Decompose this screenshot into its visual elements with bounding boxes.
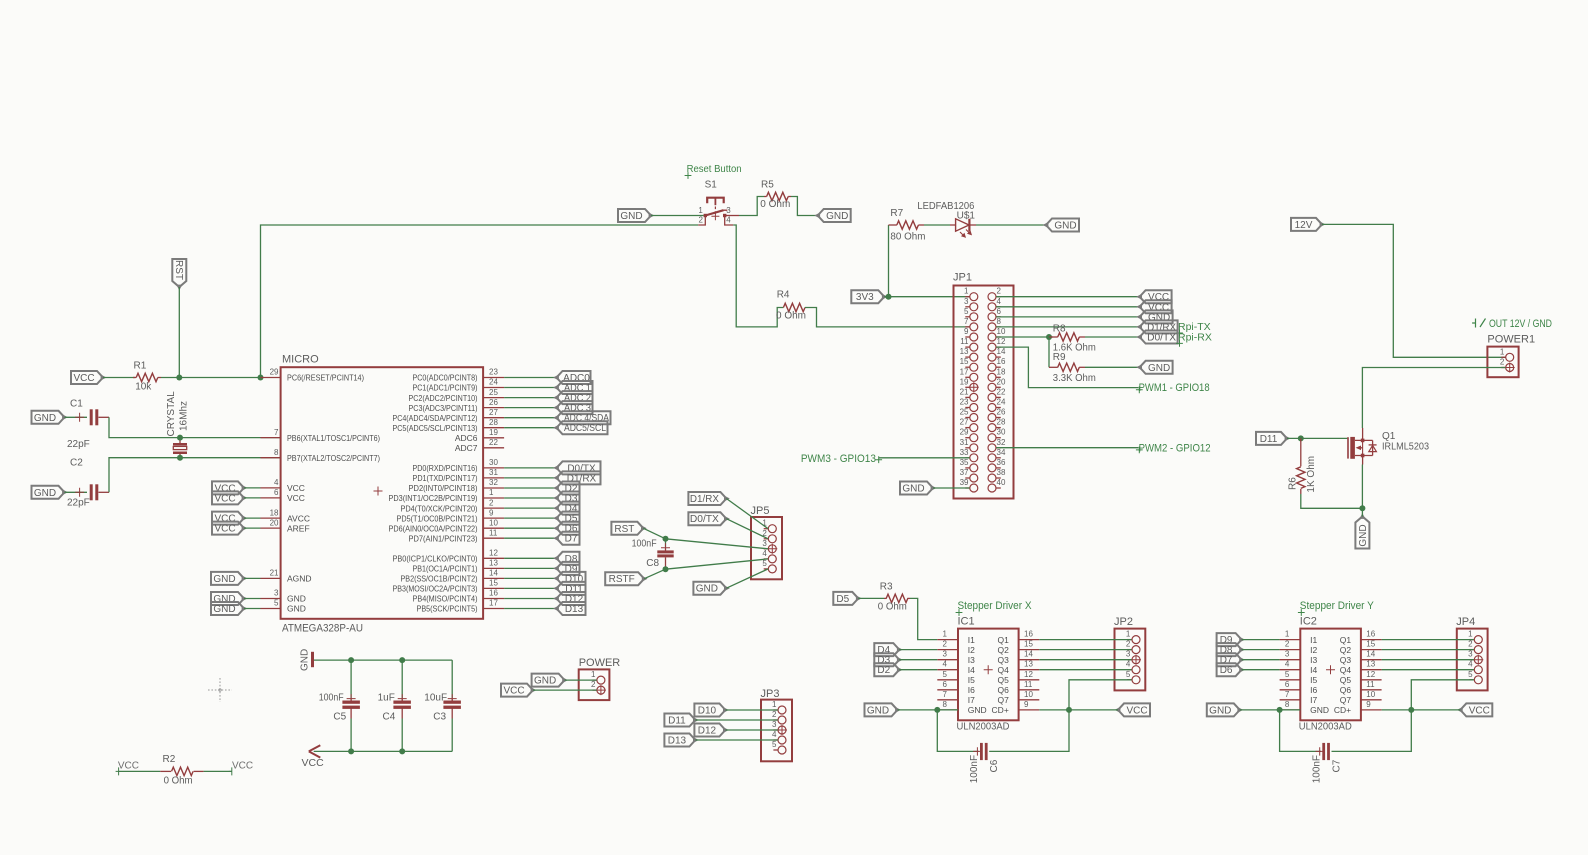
ground flag GND at S1 — [618, 209, 654, 222]
svg-text:11: 11 — [489, 528, 498, 537]
JP1 pin 36 — [988, 458, 1006, 472]
svg-text:Q3: Q3 — [997, 655, 1009, 665]
IC1 pin 1 I1 — [937, 630, 975, 645]
net label D0/TX at JP1 — [1136, 331, 1177, 344]
svg-text:1: 1 — [489, 488, 494, 497]
svg-text:35: 35 — [960, 458, 969, 467]
net PWM3 - GPIO13 — [801, 453, 882, 465]
connector POWER body — [579, 657, 621, 700]
JP1 pin 40 — [988, 478, 1006, 492]
wire D8 to IC2 pin2 — [1242, 649, 1280, 651]
svg-text:8: 8 — [274, 448, 279, 457]
svg-text:GND: GND — [213, 574, 235, 585]
svg-text:30: 30 — [997, 428, 1006, 437]
svg-text:GND: GND — [1054, 221, 1076, 232]
net label D3 — [874, 653, 902, 666]
wire cap bank bottom — [314, 750, 453, 752]
svg-text:R7: R7 — [890, 208, 903, 219]
svg-text:3: 3 — [762, 539, 767, 548]
junction IC1 GND node — [934, 707, 940, 713]
svg-text:VCC: VCC — [73, 373, 94, 384]
MICRO pin 25 PC2(ADC2/PCINT10) — [409, 388, 505, 403]
wire D11 to Q1 gate — [1287, 437, 1347, 439]
svg-text:GND: GND — [867, 705, 889, 716]
svg-text:ULN2003AD: ULN2003AD — [957, 720, 1010, 732]
svg-text:38: 38 — [997, 468, 1006, 477]
annotation Reset Button — [685, 164, 742, 179]
wire GND pin21 — [244, 577, 261, 579]
MICRO pin 24 PC1(ADC1/PCINT9) — [413, 378, 505, 393]
resistor R7 80 Ohm — [889, 208, 926, 243]
net label D5 at R3 — [833, 592, 861, 605]
IC2 pin 15 Q2 — [1340, 640, 1382, 655]
svg-text:ADC7: ADC7 — [455, 443, 478, 453]
wire pin 32 to D2 — [504, 487, 556, 489]
MICRO pin 29 PC6(/RESET/PCINT14) — [261, 368, 365, 383]
JP1 pin 18 — [988, 367, 1006, 381]
junction pin29 — [258, 375, 264, 381]
svg-text:D11: D11 — [1260, 434, 1278, 445]
net label D9 — [1217, 633, 1245, 646]
wire 12V to POWER1 pin1 — [1322, 224, 1506, 357]
IC IC1 ULN2003AD body — [957, 615, 1019, 732]
junction IC1 VCC node — [1066, 707, 1072, 713]
wire JP1 pin12 to PWM1 — [996, 347, 1138, 388]
svg-text:6: 6 — [943, 680, 948, 689]
IC1 pin 7 I7 — [937, 690, 975, 705]
svg-text:I5: I5 — [968, 675, 975, 685]
svg-text:20: 20 — [997, 377, 1006, 386]
svg-text:PD1(TXD/PCINT17): PD1(TXD/PCINT17) — [413, 473, 478, 483]
svg-text:PC6(/RESET/PCINT14): PC6(/RESET/PCINT14) — [287, 373, 364, 383]
wire JP2 pin5 to VCC node — [1069, 680, 1132, 710]
svg-text:15: 15 — [1366, 640, 1375, 649]
MICRO pin 2 PD4(T0/XCK/PCINT20) — [401, 498, 505, 513]
svg-text:14: 14 — [997, 347, 1006, 356]
wire GND pin5 — [244, 608, 261, 610]
wire C2 to XTAL2 pin8 — [109, 458, 281, 493]
wire IC1 Q1 to JP2 pin1 — [1039, 639, 1131, 641]
svg-text:C8: C8 — [646, 558, 659, 569]
svg-text:9: 9 — [1366, 700, 1371, 709]
JP1 pin 27 — [960, 418, 978, 432]
IC1 pin 11 Q6 — [997, 680, 1039, 695]
wire pin 2 to D4 — [504, 507, 556, 509]
net label D7 — [553, 532, 579, 545]
net label D10 — [553, 572, 585, 585]
wire RST to R1 net — [178, 287, 180, 378]
JP1 pin 11 — [960, 337, 978, 351]
sheet origin marker — [208, 678, 232, 702]
JP1 pin 31 — [960, 438, 978, 452]
svg-text:26: 26 — [997, 408, 1006, 417]
svg-text:PWM2 - GPIO12: PWM2 - GPIO12 — [1139, 442, 1211, 454]
wire VCC pin18 — [244, 517, 261, 519]
power flag VCC at IC2 — [1457, 703, 1492, 716]
svg-text:4: 4 — [762, 549, 767, 558]
ground flag GND pin21 — [211, 572, 247, 585]
IC2 pin 1 I1 — [1280, 630, 1318, 645]
IC1 pin 4 I4 — [937, 660, 975, 675]
net label D6 — [1217, 663, 1245, 676]
MICRO pin 6 VCC — [261, 488, 305, 503]
net label ADC0 — [553, 371, 590, 384]
svg-text:PC0(ADC0/PCINT8): PC0(ADC0/PCINT8) — [413, 373, 478, 383]
svg-text:2: 2 — [1500, 358, 1505, 367]
svg-text:PC4(ADC4/SDA/PCINT12): PC4(ADC4/SDA/PCINT12) — [393, 413, 478, 423]
svg-text:CD+: CD+ — [992, 705, 1009, 715]
svg-text:GND: GND — [287, 594, 306, 604]
svg-text:I1: I1 — [1310, 635, 1317, 645]
svg-text:ADC5/SCL: ADC5/SCL — [564, 423, 606, 434]
svg-text:Q5: Q5 — [997, 675, 1009, 685]
MICRO pin 13 PB1(OC1A/PCINT1) — [413, 559, 505, 574]
svg-text:7: 7 — [274, 428, 279, 437]
MICRO pin 3 GND — [261, 589, 306, 604]
svg-text:5: 5 — [1285, 670, 1290, 679]
annotation Rpi-TX — [1176, 321, 1211, 336]
wire pin 14 to D10 — [504, 577, 556, 579]
junction C5 top — [348, 657, 354, 663]
svg-text:GND: GND — [34, 488, 56, 499]
power flag 3V3 — [851, 290, 887, 303]
JP1 pin 38 — [988, 468, 1006, 482]
svg-text:I5: I5 — [1310, 675, 1317, 685]
MICRO pin 4 VCC — [261, 478, 305, 493]
svg-text:6: 6 — [1285, 680, 1290, 689]
IC2 pin 12 Q5 — [1340, 670, 1382, 685]
IC1 pin 10 Q7 — [997, 690, 1039, 705]
svg-text:5: 5 — [1126, 670, 1131, 679]
wire VCC to POWER pin2 — [533, 689, 597, 691]
svg-text:7: 7 — [964, 317, 969, 326]
svg-text:13: 13 — [1024, 660, 1033, 669]
svg-text:C6: C6 — [989, 759, 1000, 772]
svg-text:28: 28 — [997, 418, 1006, 427]
power flag VCC pin18 — [212, 512, 247, 525]
svg-text:R8: R8 — [1053, 324, 1066, 335]
svg-text:I4: I4 — [1310, 665, 1317, 675]
wire pin 17 to D13 — [504, 608, 556, 610]
svg-text:D12: D12 — [698, 726, 717, 737]
svg-text:RST: RST — [614, 524, 634, 535]
svg-text:JP2: JP2 — [1114, 616, 1133, 628]
svg-text:18: 18 — [997, 367, 1006, 376]
svg-text:3: 3 — [1285, 650, 1290, 659]
JP4 pin 1 — [1468, 630, 1482, 644]
net label D4 — [553, 502, 579, 515]
net label D10 — [694, 704, 728, 717]
svg-text:GND: GND — [1310, 705, 1329, 715]
svg-text:28: 28 — [489, 418, 498, 427]
JP1 pin 10 — [988, 327, 1006, 341]
svg-text:37: 37 — [960, 468, 969, 477]
junction R8 R9 — [1046, 334, 1052, 340]
svg-text:100nF: 100nF — [319, 693, 344, 704]
svg-text:GND: GND — [620, 211, 642, 222]
svg-text:D7: D7 — [565, 534, 578, 545]
svg-text:GND: GND — [1358, 524, 1369, 546]
svg-text:15: 15 — [960, 357, 969, 366]
annotation Stepper Driver X — [956, 600, 1032, 616]
wire 3V3 to JP1 pin1 — [884, 296, 969, 298]
wire R2 to VCC — [204, 770, 232, 772]
wire LED to GND — [976, 224, 1046, 226]
wire pin 13 to D9 — [504, 567, 556, 569]
svg-text:19: 19 — [960, 377, 969, 386]
MICRO pin 14 PB2(SS/OC1B/PCINT2) — [401, 569, 505, 584]
wire D5 to R3 — [858, 597, 884, 599]
svg-text:6: 6 — [997, 307, 1002, 316]
wire GND to C1 — [65, 416, 88, 418]
svg-text:4: 4 — [997, 297, 1002, 306]
wire pin 26 to ADC 3 — [504, 407, 556, 409]
ground flag GND at IC1 — [865, 703, 901, 716]
svg-text:14: 14 — [1024, 650, 1033, 659]
svg-text:4: 4 — [726, 216, 731, 225]
wire Q1 GND stub — [1361, 508, 1363, 516]
net label D13 — [553, 602, 585, 615]
svg-text:15: 15 — [489, 579, 498, 588]
wire 3V3 up to R7 — [888, 225, 890, 297]
svg-text:11: 11 — [960, 337, 969, 346]
JP1 pin 12 — [988, 337, 1006, 351]
svg-text:13: 13 — [1366, 660, 1375, 669]
wire R4 to JP1 pin7 — [805, 308, 970, 327]
IC2 pin 16 Q1 — [1340, 630, 1382, 645]
ground flag GND at IC2 — [1207, 703, 1243, 716]
svg-text:JP4: JP4 — [1456, 616, 1475, 628]
capacitor C7 — [1280, 710, 1412, 783]
svg-text:3: 3 — [943, 650, 948, 659]
svg-text:12: 12 — [997, 337, 1006, 346]
svg-text:RSTF: RSTF — [609, 574, 635, 585]
svg-text:PB1(OC1A/PCINT1): PB1(OC1A/PCINT1) — [413, 564, 478, 574]
svg-text:PB4(MISO/PCINT4): PB4(MISO/PCINT4) — [413, 594, 478, 604]
svg-text:5: 5 — [762, 559, 767, 568]
net label D11 — [553, 582, 585, 595]
svg-text:GND: GND — [300, 649, 311, 671]
svg-text:GND: GND — [287, 604, 306, 614]
JP1 pin 24 — [988, 398, 1006, 412]
wire D1/RX to JP5 pin1 — [726, 499, 768, 529]
IC1 pin 14 Q3 — [997, 650, 1039, 665]
svg-text:24: 24 — [489, 378, 498, 387]
net label D2 — [553, 482, 579, 495]
JP4 pin 5 — [1468, 670, 1482, 684]
svg-text:25: 25 — [960, 408, 969, 417]
resistor R1 10k — [133, 361, 161, 393]
svg-text:18: 18 — [270, 508, 279, 517]
wire pin 25 to ADC 2 — [504, 397, 556, 399]
svg-text:PD4(T0/XCK/PCINT20): PD4(T0/XCK/PCINT20) — [401, 503, 478, 513]
svg-text:D13: D13 — [668, 736, 687, 747]
svg-text:Q1: Q1 — [997, 635, 1009, 645]
svg-text:4: 4 — [274, 478, 279, 487]
JP1 pin 34 — [988, 448, 1006, 462]
MICRO pin 7 PB6(XTAL1/TOSC1/PCINT6) — [261, 428, 381, 443]
net label D9 — [553, 562, 579, 575]
svg-text:2: 2 — [591, 680, 596, 689]
svg-text:I4: I4 — [968, 665, 975, 675]
svg-text:4: 4 — [943, 660, 948, 669]
svg-text:C2: C2 — [70, 458, 83, 469]
wire pin 9 to D5 — [504, 517, 556, 519]
IC2 pin 14 Q3 — [1340, 650, 1382, 665]
wire D0/TX to JP5 pin2 — [726, 519, 768, 539]
svg-text:I7: I7 — [1310, 695, 1317, 705]
wire pin 28 to ADC5/SCL — [504, 427, 556, 429]
junction C8 top — [663, 536, 669, 542]
net label D7 — [1217, 653, 1245, 666]
svg-text:40: 40 — [997, 478, 1006, 487]
ground flag GND at POWER — [532, 674, 568, 687]
wire R3 to IC1 pin1 — [910, 598, 937, 639]
wire D9 to IC2 pin1 — [1242, 639, 1280, 641]
svg-text:0 Ohm: 0 Ohm — [776, 311, 806, 322]
JP1 pin 5 — [964, 307, 978, 321]
svg-text:0 Ohm: 0 Ohm — [760, 199, 790, 210]
power flag VCC pin4 — [212, 481, 247, 494]
svg-text:PB7(XTAL2/TOSC2/PCINT7): PB7(XTAL2/TOSC2/PCINT7) — [287, 453, 380, 463]
JP1 pin 9 — [964, 327, 978, 341]
svg-text:VCC: VCC — [214, 524, 235, 535]
MICRO pin 12 PB0(ICP1/CLKO/PCINT0) — [393, 549, 505, 564]
wire D7 to IC2 pin3 — [1242, 659, 1280, 661]
JP2 pin3 origin cross — [1131, 655, 1141, 665]
ground flag GND at LED — [1043, 219, 1079, 232]
svg-text:I2: I2 — [1310, 645, 1317, 655]
svg-text:GND: GND — [1209, 705, 1231, 716]
junction RST net — [176, 375, 182, 381]
wire IC2 CD+ to VCC — [1382, 709, 1461, 711]
ground flag GND JP1 pin39 — [900, 482, 936, 495]
net label D11 at Q1 — [1256, 432, 1290, 445]
svg-text:1: 1 — [964, 287, 969, 296]
net label RST — [611, 522, 646, 535]
svg-text:10: 10 — [1024, 690, 1033, 699]
MICRO pin 1 PD3(INT1/OC2B/PCINT19) — [389, 488, 505, 503]
net label D8 — [1217, 643, 1245, 656]
svg-text:R3: R3 — [880, 582, 893, 593]
wire S1 pin4 to R4 — [733, 225, 783, 327]
svg-text:VCC: VCC — [302, 757, 325, 769]
svg-text:2: 2 — [997, 287, 1002, 296]
wire D3 to IC1 pin3 — [899, 659, 937, 661]
svg-text:4: 4 — [1285, 660, 1290, 669]
connector JP3 body — [761, 688, 793, 761]
IC1 pin 5 I5 — [937, 670, 975, 685]
IC2 pin 6 I6 — [1280, 680, 1318, 695]
svg-text:AREF: AREF — [287, 523, 310, 533]
JP1 pin 19 — [960, 377, 978, 391]
power flag VCC pin6 — [212, 491, 247, 504]
svg-text:7: 7 — [943, 690, 948, 699]
svg-text:PC1(ADC1/PCINT9): PC1(ADC1/PCINT9) — [413, 383, 478, 393]
svg-text:1: 1 — [698, 206, 703, 215]
svg-text:12: 12 — [1366, 670, 1375, 679]
svg-text:2: 2 — [1285, 640, 1290, 649]
capacitor C1 22pF — [67, 399, 109, 451]
svg-text:VCC: VCC — [118, 760, 139, 771]
svg-text:D10: D10 — [698, 706, 717, 717]
power flag VCC JP1 pin4 — [1136, 300, 1171, 313]
svg-text:23: 23 — [489, 368, 498, 377]
MICRO pin 23 PC0(ADC0/PCINT8) — [413, 368, 505, 383]
svg-text:S1: S1 — [705, 179, 718, 190]
wire R8 junction down to R9 — [1048, 337, 1050, 367]
svg-text:5: 5 — [1468, 670, 1473, 679]
svg-text:32: 32 — [997, 438, 1006, 447]
svg-text:10uF: 10uF — [424, 693, 447, 704]
JP5 pin3 origin cross — [767, 544, 777, 554]
MICRO pin 8 PB7(XTAL2/TOSC2/PCINT7) — [261, 448, 381, 463]
wire pin 27 to ADC 4/SDA — [504, 417, 556, 419]
svg-text:5: 5 — [772, 740, 777, 749]
svg-text:2: 2 — [1126, 640, 1131, 649]
svg-text:IC2: IC2 — [1300, 615, 1317, 627]
svg-text:R1: R1 — [134, 361, 147, 372]
IC1 pin 3 I3 — [937, 650, 975, 665]
wire GND to IC1 pin8 — [898, 709, 959, 711]
capacitor C5 100nF — [319, 660, 360, 751]
svg-text:3: 3 — [772, 720, 777, 729]
wire IC1 CD+ to VCC — [1039, 709, 1118, 711]
net label D13 at JP3 — [664, 734, 698, 747]
MICRO pin 5 GND — [261, 599, 306, 614]
JP1 pin 29 — [960, 428, 978, 442]
LED U$1 LEDFAB1206 — [917, 201, 976, 237]
JP1 pin 20 — [988, 377, 1006, 391]
svg-text:22pF: 22pF — [67, 498, 90, 509]
svg-text:PD5(T1/OC0B/PCINT21): PD5(T1/OC0B/PCINT21) — [397, 513, 478, 523]
wire R9 to GND — [1085, 366, 1140, 368]
wire RST to C8 — [643, 528, 665, 539]
svg-text:1uF: 1uF — [378, 693, 395, 704]
JP1 pin 25 — [960, 408, 978, 422]
ground flag GND at R9 — [1136, 361, 1172, 374]
IC2 pin 10 Q7 — [1340, 690, 1382, 705]
svg-text:U$1: U$1 — [957, 211, 976, 222]
svg-text:39: 39 — [960, 478, 969, 487]
JP5 pin 4 — [762, 549, 776, 563]
svg-text:31: 31 — [960, 438, 969, 447]
svg-text:31: 31 — [489, 468, 498, 477]
JP3 pin3 origin cross — [777, 725, 787, 735]
wire JP1 pin6 to GND — [996, 316, 1139, 318]
JP1 pin 2 — [988, 287, 1002, 301]
svg-text:D0/TX: D0/TX — [1147, 333, 1176, 344]
junction Q1 GND — [1359, 505, 1365, 511]
wire D13 to JP3 pin4 — [695, 739, 777, 741]
svg-text:PC3(ADC3/PCINT11): PC3(ADC3/PCINT11) — [409, 403, 478, 413]
svg-text:16: 16 — [489, 589, 498, 598]
JP1 pin 7 — [964, 317, 978, 331]
svg-text:1: 1 — [591, 670, 596, 679]
ground flag GND JP1 pin6 — [1136, 310, 1172, 323]
svg-text:13: 13 — [960, 347, 969, 356]
svg-text:PD6(AIN0/OC0A/PCINT22): PD6(AIN0/OC0A/PCINT22) — [389, 523, 478, 533]
wire D6 to IC2 pin4 — [1242, 669, 1280, 671]
junction C4 top — [399, 657, 405, 663]
svg-text:3: 3 — [1468, 650, 1473, 659]
svg-text:26: 26 — [489, 398, 498, 407]
svg-text:I3: I3 — [1310, 655, 1317, 665]
JP1 pin 23 — [960, 398, 978, 412]
svg-text:PB0(ICP1/CLKO/PCINT0): PB0(ICP1/CLKO/PCINT0) — [393, 554, 478, 564]
junction C8 bottom — [663, 566, 669, 572]
power flag VCC JP1 pin2 — [1136, 290, 1171, 303]
